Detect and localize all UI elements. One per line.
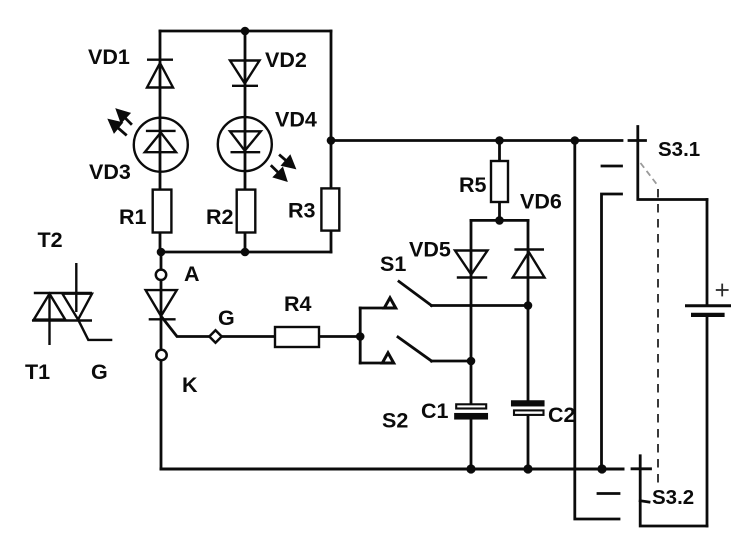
svg-text:R5: R5 xyxy=(459,173,487,197)
svg-text:VD1: VD1 xyxy=(88,45,130,69)
svg-text:VD4: VD4 xyxy=(275,108,317,132)
svg-text:S1: S1 xyxy=(380,252,406,276)
svg-text:C2: C2 xyxy=(548,403,576,427)
svg-text:T1: T1 xyxy=(25,360,50,384)
svg-text:S3.2: S3.2 xyxy=(652,486,694,509)
svg-text:A: A xyxy=(184,262,200,286)
svg-text:K: K xyxy=(182,373,198,397)
svg-text:R1: R1 xyxy=(119,205,147,229)
svg-text:G: G xyxy=(218,306,235,330)
svg-text:S3.1: S3.1 xyxy=(658,138,700,161)
svg-text:T2: T2 xyxy=(38,228,63,252)
svg-text:R2: R2 xyxy=(206,205,234,229)
svg-text:VD6: VD6 xyxy=(520,190,562,214)
svg-text:S2: S2 xyxy=(382,409,408,433)
svg-text:VD3: VD3 xyxy=(89,160,131,184)
svg-text:C1: C1 xyxy=(421,399,449,423)
svg-text:G: G xyxy=(91,360,108,384)
svg-text:R3: R3 xyxy=(288,199,316,223)
svg-text:R4: R4 xyxy=(284,292,312,316)
svg-text:VD2: VD2 xyxy=(265,48,307,72)
svg-text:VD5: VD5 xyxy=(409,238,451,262)
